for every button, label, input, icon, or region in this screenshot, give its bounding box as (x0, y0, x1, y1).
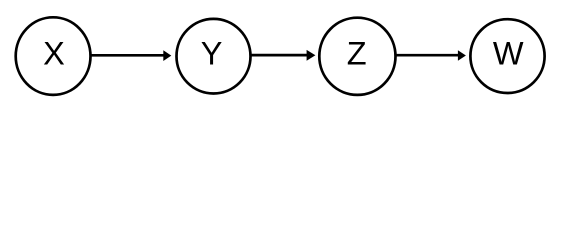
svg-text:Y: Y (201, 36, 223, 72)
svg-text:Z: Z (347, 36, 367, 72)
svg-text:X: X (43, 36, 65, 72)
svg-text:W: W (493, 36, 524, 72)
